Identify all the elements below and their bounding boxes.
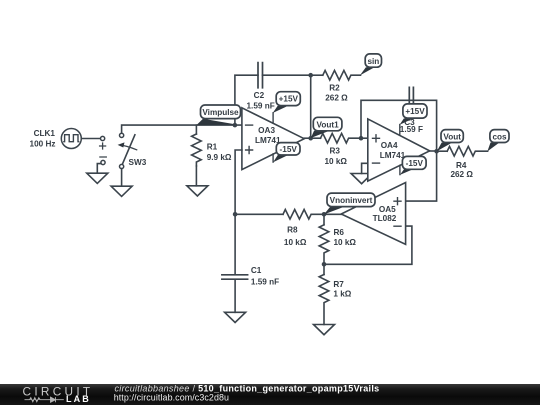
C3 name/value label xyxy=(400,118,423,134)
svg-text:100 Hz: 100 Hz xyxy=(30,139,56,148)
footer CircuitLab logo xyxy=(23,384,94,404)
op-amp OA5 xyxy=(341,183,405,245)
node junction Vimpulse rail / R1 xyxy=(233,123,238,128)
ground (CLK1) xyxy=(87,173,108,183)
svg-text:Vout: Vout xyxy=(443,132,461,141)
svg-text:+15V: +15V xyxy=(405,107,425,116)
wire node to C1 xyxy=(234,214,236,274)
svg-text:R2: R2 xyxy=(329,83,340,92)
svg-text:OA5: OA5 xyxy=(379,205,396,214)
capacitor C2 xyxy=(258,63,311,88)
resistor R1 xyxy=(192,125,202,186)
ground (R1) xyxy=(187,186,208,196)
svg-text:R6: R6 xyxy=(334,228,345,237)
wire switch top to node rail xyxy=(122,125,242,133)
svg-text:1.59 F: 1.59 F xyxy=(400,125,423,134)
svg-text:OA3: OA3 xyxy=(258,126,275,135)
wire switch bottom to ground xyxy=(121,169,123,187)
-15V power label (OA3) xyxy=(273,143,300,163)
node label Vimpulse xyxy=(196,105,240,125)
-15V power label (OA4) xyxy=(400,156,426,175)
ground (OA4 minus) xyxy=(351,174,372,184)
wire CLK1 output xyxy=(81,138,100,140)
resistor R4 xyxy=(437,146,488,156)
svg-text:cos: cos xyxy=(492,132,507,141)
svg-text:262 Ω: 262 Ω xyxy=(325,94,348,103)
+15V power label (OA4) xyxy=(400,104,427,125)
svg-text:sin: sin xyxy=(367,57,379,66)
ground (C1) xyxy=(225,312,246,322)
op-amp OA4 xyxy=(368,119,430,181)
ground (SW3) xyxy=(111,186,132,196)
node sin label xyxy=(360,54,382,76)
node junction OA4 plus input xyxy=(359,136,364,141)
source CLK1 xyxy=(61,129,81,149)
wire R3 to OA4 plus xyxy=(361,137,368,139)
svg-text:+15V: +15V xyxy=(279,95,299,104)
resistor R2 xyxy=(311,70,361,80)
ground (R7) xyxy=(314,325,335,335)
polarity marks xyxy=(100,143,107,157)
wire OA5 minus to feedback node xyxy=(324,226,412,264)
node junction C2/R2/feedback xyxy=(308,73,313,78)
wire Vimpulse node vertical (to C2) xyxy=(235,75,258,125)
wire OA5 output to Vnoninvert node xyxy=(324,213,341,215)
capacitor C3 xyxy=(409,87,413,104)
node junction Vout / OA4 output xyxy=(430,150,437,152)
+15V power label (OA3) xyxy=(273,92,301,113)
svg-text:9.9 kΩ: 9.9 kΩ xyxy=(207,153,232,162)
node label cos xyxy=(487,130,509,152)
svg-text:SW3: SW3 xyxy=(129,158,147,167)
R4 name/value label xyxy=(450,161,473,179)
wire feedback C2 to OA3 output xyxy=(310,75,312,138)
svg-text:-15V: -15V xyxy=(280,145,298,154)
switch SW3 xyxy=(118,133,137,168)
svg-text:LAB: LAB xyxy=(66,394,91,404)
svg-text:1.59 nF: 1.59 nF xyxy=(251,277,279,286)
capacitor C1 xyxy=(222,275,248,313)
R2 name/value label xyxy=(325,83,348,102)
resistor R7 xyxy=(319,264,329,324)
svg-text:R1: R1 xyxy=(207,142,218,151)
footer title text xyxy=(114,384,380,403)
svg-text:R4: R4 xyxy=(456,161,467,170)
svg-text:Vnoninvert: Vnoninvert xyxy=(330,196,373,205)
svg-text:C2: C2 xyxy=(254,91,265,100)
node junction R6/R7/OA5 minus xyxy=(322,262,327,267)
terminal + of CLK1 xyxy=(101,136,105,140)
terminal - of CLK1 xyxy=(101,160,105,164)
svg-text:OA4: OA4 xyxy=(381,141,398,150)
svg-text:Vimpulse: Vimpulse xyxy=(202,108,239,117)
svg-text:10 kΩ: 10 kΩ xyxy=(334,238,357,247)
node label Vout1 xyxy=(311,117,342,138)
node label Vnoninvert xyxy=(324,193,375,214)
C2 name/value label xyxy=(246,91,274,111)
R3 name/value label xyxy=(324,146,347,166)
wire OA4 output down to OA5 plus xyxy=(406,151,437,201)
svg-text:-15V: -15V xyxy=(406,159,424,168)
svg-text:CLK1: CLK1 xyxy=(34,129,56,138)
svg-text:R7: R7 xyxy=(333,280,344,289)
svg-text:10 kΩ: 10 kΩ xyxy=(284,238,307,247)
resistor R3 xyxy=(311,133,361,143)
op-amp OA3 xyxy=(242,108,304,170)
svg-text:R3: R3 xyxy=(329,146,340,155)
svg-text:Vout1: Vout1 xyxy=(317,120,340,129)
resistor R8 xyxy=(235,210,324,220)
OA4 name/value label xyxy=(380,141,406,160)
node junction C1/R8 xyxy=(233,212,238,217)
svg-text:1 kΩ: 1 kΩ xyxy=(333,290,351,299)
svg-text:TL082: TL082 xyxy=(373,214,397,223)
node junction Vout1 xyxy=(308,136,313,141)
R7 name/value label xyxy=(333,280,351,298)
resistor R6 xyxy=(319,214,329,264)
OA3 name/value label xyxy=(255,126,281,145)
svg-text:LM741: LM741 xyxy=(380,151,406,160)
R1 name/value label xyxy=(207,142,232,162)
svg-text:http://circuitlab.com/c3c2d8u: http://circuitlab.com/c3c2d8u xyxy=(114,392,229,402)
wire OA3 output to node xyxy=(304,137,311,139)
svg-text:C1: C1 xyxy=(251,266,262,275)
svg-text:R8: R8 xyxy=(287,226,298,235)
node label Vout xyxy=(437,130,464,152)
OA5 name/value label xyxy=(373,205,397,223)
svg-text:1.59 nF: 1.59 nF xyxy=(246,102,274,111)
svg-text:10 kΩ: 10 kΩ xyxy=(324,157,347,166)
wire OA4 feedback loop with C3 xyxy=(361,100,437,151)
C1 name/value label xyxy=(251,266,279,287)
R6 name/value label xyxy=(334,228,357,247)
R8 name/value label xyxy=(284,226,307,247)
svg-text:262 Ω: 262 Ω xyxy=(450,170,473,179)
wire OA3 plus input down to C1 node xyxy=(235,150,242,214)
wire OA4 minus to ground xyxy=(362,163,368,173)
wire CLK1 minus to ground xyxy=(97,164,101,174)
node junction Vnoninvert xyxy=(322,212,327,217)
CLK1 name/value label xyxy=(30,129,56,149)
